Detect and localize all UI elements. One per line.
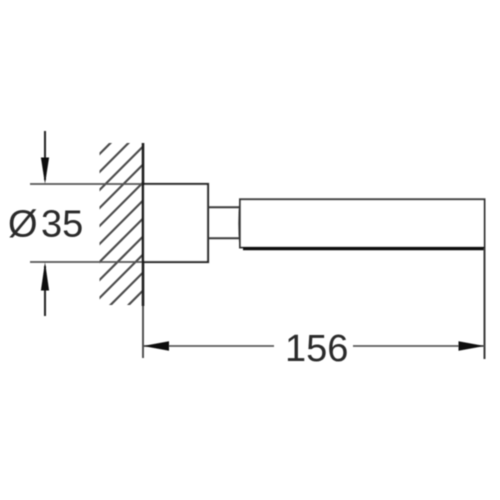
svg-text:156: 156 <box>285 328 348 370</box>
svg-text:Ø: Ø <box>8 204 38 246</box>
svg-text:35: 35 <box>41 204 83 246</box>
